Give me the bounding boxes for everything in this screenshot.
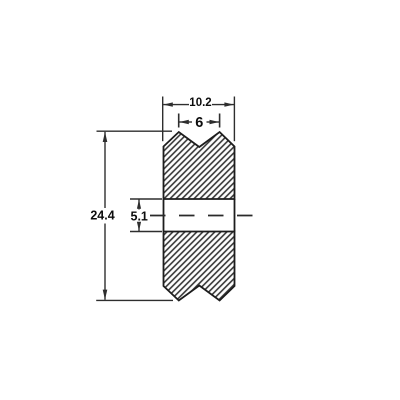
dim 5.1 line upper segment <box>138 200 140 210</box>
dim 6 left arrowhead <box>179 120 189 124</box>
dim 6 line left segment <box>179 121 192 123</box>
svg-text:6: 6 <box>195 115 203 131</box>
dim 6 right tick <box>219 114 221 128</box>
dim 24.4 line lower segment <box>104 224 106 300</box>
dim 24.4 line upper segment <box>104 132 106 208</box>
svg-text:10.2: 10.2 <box>189 97 211 109</box>
dim 10.2 line left segment <box>163 104 189 106</box>
svg-text:5.1: 5.1 <box>131 210 148 224</box>
dim 10.2 right extension line <box>233 97 235 142</box>
dim 5.1 top arrowhead <box>137 200 141 209</box>
bore band right edge <box>234 199 236 232</box>
dim 10.2 right arrowhead <box>224 102 234 106</box>
pulley lower cross-section (hatched) <box>164 232 235 301</box>
dim 24.4 top extension line <box>97 130 173 132</box>
bore band left edge <box>163 199 165 232</box>
dim 6 right arrowhead <box>210 120 220 124</box>
dim 5.1 line lower segment <box>138 223 140 232</box>
dim 10.2 left extension line <box>162 97 164 142</box>
dim 24.4 bottom arrowhead <box>103 290 108 300</box>
centerline (dashed) <box>150 215 253 217</box>
dim 24.4 bottom extension line <box>96 299 173 301</box>
svg-text:24.4: 24.4 <box>90 209 114 223</box>
dim 5.1 bottom extension line <box>130 231 162 233</box>
dim 5.1 bottom arrowhead <box>137 222 141 231</box>
dim 10.2 line right segment <box>212 104 234 106</box>
dim 5.1 top extension line <box>130 198 162 200</box>
dim 6 left tick <box>178 114 180 128</box>
pulley upper cross-section (hatched) <box>164 132 235 199</box>
dim 10.2 left arrowhead <box>163 102 173 106</box>
dim 6 line right segment <box>207 121 220 123</box>
dim 24.4 top arrowhead <box>103 132 108 142</box>
